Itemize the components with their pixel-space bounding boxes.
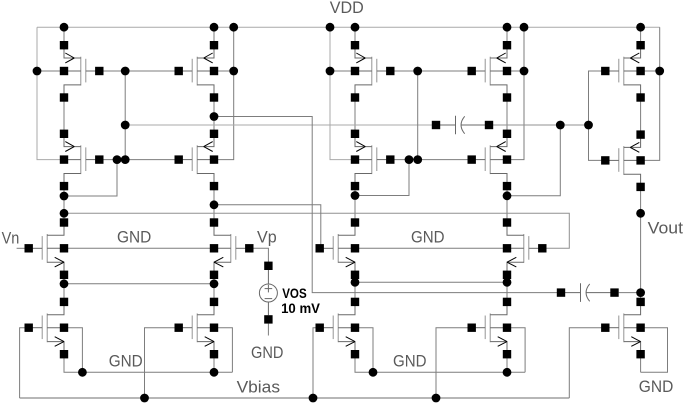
wire P2A drain to M1 drain [63,186,65,223]
wire M4 gate to Vbias [145,328,179,398]
wire pmos row1 gates left [99,70,178,72]
wire P5/P6 bulk riser to VDD [641,27,660,71]
node VDD/col1 [60,23,69,32]
node VDD/riser233 [229,23,238,32]
node cascode tap [210,112,219,121]
node row2 gates right a [405,155,414,164]
pmos P4A [351,130,395,191]
node bias rail left [121,121,130,130]
nmos M3b [316,298,360,359]
wire GND rail left [64,247,214,249]
node row1 gates left [121,67,130,76]
wire M4b source drop [506,354,508,372]
node tail left a [60,279,69,288]
node tail right b [503,278,512,287]
wire VDD right drop to P4A bulk [330,27,355,159]
node M2 drain [210,200,219,209]
wire M3 bulk loop [64,328,82,373]
node gnd wire M3 bulk [78,368,87,377]
svg-text:VDD: VDD [330,0,364,17]
nmos M2b [503,218,547,279]
svg-text:GND: GND [411,228,445,247]
wire M3 gate to Vbias [20,328,29,398]
node C2/Vout [636,288,645,297]
wire M4 bulk loop [214,328,232,373]
wire P1A bulk to VDD drop [37,70,64,72]
pmos P1B [175,41,219,102]
node out pmos gates [584,121,593,130]
svg-text:GND: GND [109,351,143,370]
node VDD/col4 [503,23,512,32]
node M1b drain [351,191,360,200]
wire P4B drain to M2b drain [506,186,508,223]
svg-text:GND: GND [639,377,674,396]
node VDD/drop330 [326,23,335,32]
wire M1b source to M3b drain [354,275,356,302]
node Vbias/M4 [140,394,149,403]
wire P6 drain to Vout node [640,187,642,302]
wire gate tie column left [124,71,126,160]
wire M5 bulk loop [641,328,668,373]
nmos M3 [25,298,69,359]
wire VOS to GND stub [267,324,269,336]
wire stage1 output rail to M2b gate [64,213,569,248]
wire M4b bulk loop [507,328,525,373]
node Vout label [636,209,645,218]
svg-text:Vbias: Vbias [237,377,280,396]
wire pmos row1 gates right [390,70,471,72]
wire M3b source gnd right [355,354,525,372]
wire M2 gate to VOS [251,248,269,261]
node P1B bulk [229,67,238,76]
wire P4A drain to M1b drain [354,186,356,223]
wire M2 source to M4 drain [213,275,215,302]
node rail start [60,209,69,218]
pmos P3B [468,41,512,102]
svg-text:10 mV: 10 mV [281,301,320,316]
wire VDD rail [37,26,660,28]
node VDD/col3 [351,23,360,32]
svg-text:GND: GND [393,352,427,371]
wire VDD left drop to P2A bulk [37,27,64,159]
wire gate tie column right [417,71,419,160]
node P1A bulk [33,67,42,76]
pmos P1A [60,41,104,102]
wire M5 source drop [640,354,642,372]
wire output pmos gate tie [589,71,606,160]
wire VDD to P1B source [213,27,215,45]
svg-text:VOS: VOS [282,286,307,301]
wire M2b source to M4b drain [506,275,508,302]
nmos M2 [210,218,254,279]
pmos P5 [601,41,645,102]
wire P1B/P2B bulk riser to VDD [214,27,234,159]
wire C2 to Vout column [619,292,641,294]
wire M1 drain to row2 gates [64,160,117,196]
pmos P4B [468,130,512,191]
wire pmos row2 gates right [389,159,472,161]
capacitor C1 [432,116,493,135]
node row2 gates left a [113,155,122,164]
wire P1A drain to P2A source [63,98,65,133]
wire cascode node to C2 [214,117,557,293]
wire M3b bulk loop [355,328,373,373]
node P3A bulk [326,67,335,76]
wire P3A drain to P4A source [354,98,356,133]
node bias rail C1 [556,121,565,130]
wire P5 drain to P6 source [640,97,642,135]
nmos M5 [601,298,645,359]
wire P2B drain to M2 drain [213,186,215,223]
wire VDD to P3B source [506,27,508,45]
pmos P6 [601,130,645,191]
capacitor C2 [557,283,619,302]
pmos P2A [60,130,104,191]
node Vbias/M3b [309,394,318,403]
nmos M4b [468,298,512,359]
wire P3B drain to P4B source [506,98,508,133]
wire M4b gate to Vbias [436,328,472,398]
wire M1 source to M3 drain [63,275,65,302]
node VDD/out [636,23,645,32]
wire M2b drain to output pmos gate bias [507,125,560,196]
wire P3B/P4B bulk riser to VDD [507,27,524,159]
voltage source VOS 10mV [259,262,277,324]
node gnd wire M3b bulk [369,368,378,377]
node row2 gates left b [121,155,130,164]
svg-text:GND: GND [251,343,283,362]
nmos M4 [175,298,219,359]
svg-text:Vn: Vn [2,228,20,247]
pmos P3A [351,41,395,102]
wire VDD to P1A source [63,27,65,45]
node row2 gates right b [413,155,422,164]
node VDD/col2 [210,23,219,32]
node Vbias/M4b [432,394,441,403]
node M1 drain [60,192,69,201]
wire P1B drain to P2B source [213,98,215,133]
wire Vbias rail [20,397,570,399]
node M2b drain [503,191,512,200]
wire pmos row2 gates left [99,159,178,161]
node P5 bulk [655,67,664,76]
wire GND rail right [355,247,507,249]
wire M3b gate to Vbias [313,328,320,398]
pmos P2B [175,130,219,191]
wire M4 source drop [213,354,215,372]
wire VDD to P3A source [354,27,356,45]
wire tail left [64,283,214,285]
wire gate bias rail to C1 [125,124,436,126]
nmos M1 [25,218,69,279]
wire M1b drain to row2 gates [355,160,409,196]
wire C1 to output pmos gates [489,124,589,126]
wire M5 gate to Vbias [569,328,605,398]
node row1 gates right [413,67,422,76]
node VDD/riser524 [520,23,529,32]
wire tail right [355,281,507,283]
node gnd wire M4b [503,368,512,377]
node P3B bulk [520,67,529,76]
wire M2 drain node to M1b gate [214,205,321,249]
wire Vn input [17,247,29,249]
wire VDD to P5 source [640,27,642,45]
node tail left b [210,279,219,288]
nmos M1b [316,218,360,279]
node tail right a [351,278,360,287]
svg-text:Vout: Vout [648,218,684,237]
node gnd wire M4 [210,368,219,377]
svg-text:Vp: Vp [257,228,277,247]
wire M3 source gnd left [64,354,232,372]
svg-text:GND: GND [117,228,151,247]
wire P3A bulk to VDD drop [330,70,355,72]
